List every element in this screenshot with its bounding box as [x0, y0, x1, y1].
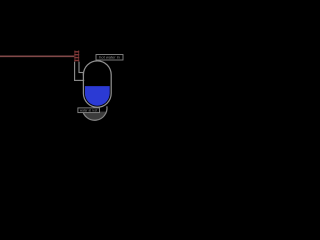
liquid (blue) [85, 86, 110, 106]
bowl arc under tank [82, 106, 107, 120]
heater E1 (ladder) [74, 50, 79, 61]
tank T1 outline [83, 61, 111, 107]
svg-text:hot water in: hot water in [99, 55, 120, 60]
svg-text:water at rest: water at rest [80, 109, 98, 113]
wire W1 [0, 55, 74, 57]
label box L1 (hot water in) [96, 55, 123, 61]
bowl interior wedge [83, 112, 107, 121]
pipe P1 elbow [74, 62, 84, 81]
label box L2 (bottom) [78, 108, 100, 113]
